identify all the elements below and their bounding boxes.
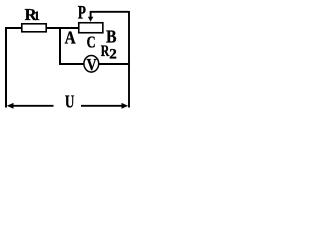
U dimension arrow left segment (12, 105, 54, 107)
svg-text:U: U (65, 92, 75, 112)
rheostat R2 track (box) (79, 23, 103, 33)
wire: voltmeter branch horizontal (59, 63, 129, 65)
svg-text:2: 2 (109, 47, 117, 63)
wire: wiper loop top (90, 11, 129, 13)
svg-text:P: P (78, 3, 86, 24)
svg-text:C: C (87, 33, 96, 52)
wire: right supply lead / extension line (128, 11, 130, 108)
svg-text:1: 1 (34, 9, 40, 23)
resistor R1 (22, 24, 46, 32)
wire: top wire left segment (left lead to R1) (5, 27, 22, 29)
voltmeter V (84, 56, 99, 73)
wiper P arrow stem (90, 12, 92, 18)
wiper P arrowhead (88, 17, 93, 22)
wire: voltmeter branch drop (59, 28, 61, 64)
U dimension arrowhead right (122, 103, 129, 109)
wire: left supply lead / extension line (5, 27, 7, 108)
svg-text:V: V (87, 55, 98, 74)
wire: top wire middle segment (R1 to rheostat A terminal) (47, 27, 79, 29)
U dimension arrowhead left (7, 103, 14, 109)
U dimension arrow right segment (81, 105, 124, 107)
svg-text:A: A (65, 28, 76, 48)
